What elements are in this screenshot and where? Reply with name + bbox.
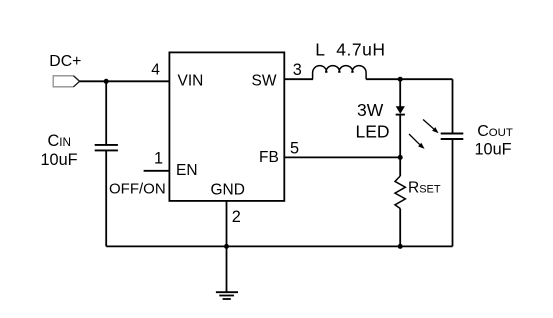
ground symbol [216,292,238,299]
svg-text:VIN: VIN [178,73,204,90]
svg-text:FB: FB [259,149,279,166]
wire: LED cathode down to FB node [399,115,401,158]
node: junction LED branch top [398,77,403,82]
node: junction ground tap [224,244,229,249]
wire: inductor to right corner [366,78,452,80]
wire: right vertical down to COUT top plate [452,79,454,133]
LED light arrow 2 [409,134,425,149]
wire: FB node down to RSET top [399,157,401,176]
svg-text:3: 3 [293,61,302,79]
svg-text:1: 1 [154,150,163,168]
LED light arrow 1 [423,120,439,134]
svg-text:10uF: 10uF [475,140,512,158]
svg-text:OFF/ON: OFF/ON [109,180,166,197]
svg-text:EN: EN [176,162,198,179]
wire: CIN bottom plate to bottom rail [105,150,107,246]
wire: junction down to CIN top plate [105,81,107,145]
wire: LED branch from top node down to LED anode [399,79,401,106]
svg-text:4: 4 [151,61,160,78]
inductor L 4.7uH [313,66,367,80]
wire: SW pin to inductor [284,78,313,80]
node: junction CIN tap [104,79,109,84]
node: junction FB / LED / RSET [398,155,403,160]
wire: FB pin to LED/RSET node [284,156,400,158]
wire: bottom rail [106,245,452,247]
wire: RSET bottom to bottom rail [399,209,401,247]
svg-text:GND: GND [211,182,245,199]
svg-text:DC+: DC+ [49,53,81,70]
svg-text:2: 2 [232,208,241,226]
svg-text:3W: 3W [357,100,384,120]
svg-text:10uF: 10uF [41,151,78,169]
connector J1 DC+ input [53,76,79,87]
wire: ground stem [226,246,228,292]
capacitor CIN [95,145,118,151]
svg-text:L 4.7uH: L 4.7uH [315,39,385,59]
wire: GND pin down to bottom rail [226,201,228,247]
node: junction RSET bottom [398,244,403,249]
wire: DC+ tip to VIN pin [80,80,170,82]
resistor RSET [395,176,405,209]
svg-text:5: 5 [290,140,299,158]
capacitor COUT [441,134,464,140]
IC U1 body [169,52,284,201]
svg-text:SW: SW [252,73,277,90]
LED D1 (diode symbol) [396,106,405,114]
svg-text:LED: LED [356,121,390,141]
wire: COUT bottom plate to bottom rail [452,139,454,246]
pin 1 stub (EN) [144,170,170,172]
